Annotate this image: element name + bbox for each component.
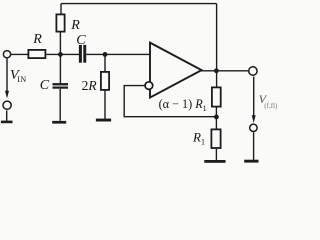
svg-text:IN: IN	[17, 75, 26, 84]
svg-text:2R: 2R	[82, 78, 98, 93]
svg-text:(α − 1) R1: (α − 1) R1	[159, 97, 207, 113]
svg-text:(f,fl): (f,fl)	[264, 102, 278, 110]
svg-text:R: R	[32, 32, 42, 47]
svg-text:C: C	[40, 78, 50, 93]
svg-text:R1: R1	[192, 130, 205, 147]
svg-text:R: R	[70, 18, 80, 33]
svg-text:C: C	[76, 33, 86, 48]
